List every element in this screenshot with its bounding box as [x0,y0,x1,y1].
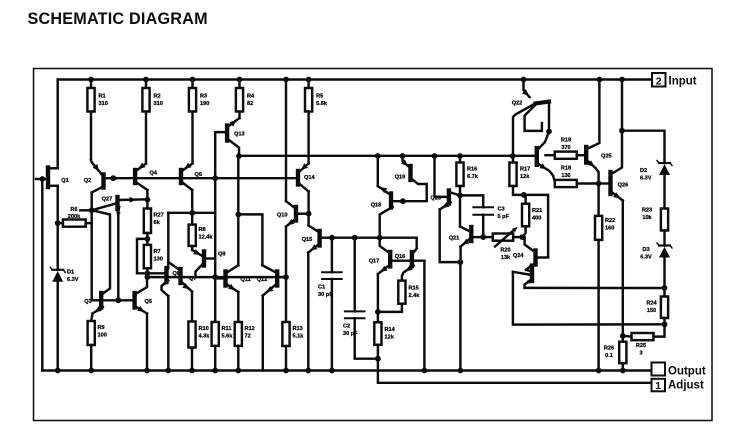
svg-text:R12: R12 [245,326,255,332]
node x215 y277 [212,274,218,280]
resistor R15 2.4k [398,281,420,304]
svg-text:12.4k: 12.4k [199,234,214,240]
wire comp node down [459,195,461,226]
wire R17 to R21 link [513,186,548,257]
wire x286 upper [285,80,287,202]
node y156 Q18 [375,153,381,159]
transistor Q23 [537,132,555,182]
wire Q14 collector down [307,192,309,226]
wire R7 to y277 node [146,268,148,277]
svg-text:82: 82 [247,101,253,107]
svg-text:R20: R20 [500,248,510,254]
svg-text:Q26: Q26 [618,183,629,189]
wire Q29 base leg [513,272,665,325]
wire R14 to adjust [377,345,379,359]
wire Q3 emitter to R9 [91,314,92,322]
svg-text:6.3V: 6.3V [640,175,652,181]
svg-text:200k: 200k [68,214,81,220]
wire R23 to D3 [663,231,665,246]
svg-text:30 pF: 30 pF [318,292,333,298]
wire left rail drop to Q1 [56,80,58,169]
resistor R3 190 [189,80,209,112]
svg-text:R26: R26 [604,346,614,352]
transistor Q3 [84,211,110,314]
transistor Q18 [371,156,393,238]
wire D1 to rail [56,281,58,370]
svg-text:R10: R10 [199,326,209,332]
transistor Q10 inline [277,201,309,226]
wire Q8 emitter to rail [167,296,169,371]
svg-text:4.3k: 4.3k [199,333,211,339]
wire adjust line [378,359,652,383]
transistor Q7 [168,262,196,292]
node central comp node [457,193,463,199]
transistor Q6 [181,163,202,190]
svg-text:Q5: Q5 [145,299,152,305]
svg-text:D2: D2 [640,168,647,174]
wire Q16 right leg [423,261,425,371]
node R12 rail [235,368,241,374]
resistor R16 6.7k [456,156,478,186]
svg-text:C2: C2 [343,324,350,330]
wire x286 lower [285,227,287,278]
wire R10 to rail [191,348,193,371]
svg-text:Q22: Q22 [512,101,523,107]
resistor R2 310 [142,80,162,112]
svg-text:Q16: Q16 [395,254,406,260]
wire R15 bottom [378,304,402,312]
node Q26 base node [596,181,602,187]
node Q11 Q12 collector join [235,212,241,218]
wire Q12 emitter to rail [262,296,264,371]
svg-text:190: 190 [200,101,209,107]
svg-text:Adjust: Adjust [668,380,704,392]
node Q10 base tap [306,211,312,217]
node base line Q13 tap [212,175,218,181]
wire y277 bus [147,276,286,278]
wire R2 to Q4 [145,112,147,164]
resistor R19 370 [546,138,585,159]
transistor Q12 [257,265,286,295]
transistor Q25 [586,147,611,184]
svg-text:R4: R4 [247,94,255,100]
svg-text:5.6k: 5.6k [316,101,328,107]
node R22 rail [596,368,602,374]
svg-text:12k: 12k [385,334,395,340]
resistor R8 12.4k [189,213,214,246]
wire Q28 base drop [435,156,448,197]
svg-text:R5: R5 [316,94,323,100]
node y156 Q28tap [432,153,438,159]
wire comparator line [239,155,535,157]
wire Q7 emitter to R10 [191,292,193,322]
capacitor C2 30pF [343,238,378,359]
resistor R7 130 [144,239,163,268]
wire Q1 collector down [56,186,58,223]
svg-text:R6: R6 [70,207,77,213]
resistor R17 12k [509,156,530,186]
wire down to D1 [56,223,58,270]
svg-text:R3: R3 [200,94,207,100]
node R15 R14 junction [375,309,381,315]
resistor R18 130 [555,166,598,188]
svg-text:R7: R7 [154,249,161,255]
node Q8 rail [165,368,171,374]
transistor Q15 [302,226,320,253]
node R11 rail [212,368,218,374]
svg-text:Q10: Q10 [277,213,288,219]
svg-text:R21: R21 [532,208,542,214]
resistor R26 0.1 [604,336,627,363]
wire R12 to rail [237,346,239,371]
wire emitter column to rail [459,262,461,370]
node R27 top [145,197,151,203]
node R27 R7 junction [145,236,151,242]
svg-text:R1: R1 [99,94,106,100]
node D1 rail [55,368,61,374]
svg-text:Q15: Q15 [302,237,313,243]
transistor Q28 [430,191,460,210]
node C1 rail [329,368,335,374]
node Q15 rail [305,368,311,374]
terminal Output [652,363,706,378]
svg-text:0.1: 0.1 [605,353,613,359]
terminal pin 2 Input [652,73,697,88]
transistor Q27 [92,197,148,212]
node Q22 collector Q23 [546,129,552,135]
transistor Q17 [369,238,390,274]
svg-text:Q25: Q25 [601,154,612,160]
resistor R1 310 [87,80,107,112]
svg-text:Q4: Q4 [150,171,158,177]
wire Q27 emitter down [116,211,121,300]
node R7 Q8 base [145,270,151,276]
node comp line left [236,153,242,159]
transistor Q1 [36,168,69,188]
node Q18 base loop [400,198,406,204]
resistor R4 82 [236,80,255,112]
node Q1 base to bottom rail [39,176,45,182]
svg-text:Q21: Q21 [449,236,460,242]
transistor Q5 [135,277,152,313]
transistor Q19 [393,156,427,201]
node R20 right [519,234,525,240]
svg-text:R14: R14 [385,327,396,333]
wire Q3 Q5 base line [100,299,134,301]
node R26 rail [620,368,626,374]
svg-text:30 pF: 30 pF [343,331,358,337]
wire Q2 collector down [90,193,92,301]
wire Q15 emitter to rail [307,253,309,371]
wire Q6 collector down [191,190,193,213]
svg-text:Q9: Q9 [218,252,225,258]
wire Q5 emitter to rail [146,314,148,371]
svg-text:2.4k: 2.4k [409,293,421,299]
resistor R13 5.1k [282,277,304,346]
node Q18 tap [377,235,383,241]
svg-text:R19: R19 [561,138,571,144]
svg-text:5.1k: 5.1k [293,333,305,339]
svg-text:R24: R24 [646,301,657,307]
resistor R5 5.6k [305,80,328,112]
svg-text:R18: R18 [561,166,571,172]
svg-text:R13: R13 [293,326,303,332]
svg-text:6.3V: 6.3V [640,254,652,260]
terminal pin 1 Adjust [652,379,704,392]
node Q21 rail [458,368,464,374]
wire R24 bottom [663,318,665,324]
node Q27 base tap [89,207,95,213]
svg-text:5 pF: 5 pF [498,214,510,220]
wire D2 to R23 [663,175,665,209]
wire R9 to rail [90,345,92,371]
node y156 Q19 [400,153,406,159]
node rail R2 [143,77,149,83]
svg-text:R23: R23 [642,208,652,214]
wire R1 to Q2 [90,112,92,161]
node C2 adjust join [375,356,381,362]
svg-text:Q18: Q18 [371,203,382,209]
svg-text:R9: R9 [98,325,105,331]
wire x215 mid [214,178,216,277]
node x286 y277 [283,274,289,280]
wire Q12 collector jog [238,214,262,265]
svg-text:Q24: Q24 [513,253,524,259]
node rail Q25 [597,77,603,83]
wire Q11 emitter to R12 [237,292,239,322]
svg-text:130: 130 [561,173,570,179]
svg-text:6k: 6k [154,220,161,226]
svg-text:SCHEMATIC DIAGRAM: SCHEMATIC DIAGRAM [28,10,208,28]
svg-text:400: 400 [532,215,541,221]
schematic border frame [34,69,713,421]
diode D3 6.3V zener [640,243,672,260]
node right column y288 [662,285,668,291]
svg-text:Q19: Q19 [395,175,406,181]
diode D1 6.3V zener [50,267,79,283]
wire PNP base line [105,177,296,179]
svg-text:2: 2 [656,75,662,87]
svg-text:R22: R22 [605,218,615,224]
wire x215 to R11 [214,277,216,322]
svg-text:Q3: Q3 [84,299,91,305]
svg-text:Q17: Q17 [369,259,380,265]
svg-text:72: 72 [245,333,251,339]
transistor Q16 [392,238,425,281]
wire R3 to Q6 [191,112,193,164]
resistor R25 3 [623,324,665,356]
node right column y324 [662,321,668,327]
svg-text:10k: 10k [642,215,652,221]
wire Q28 emitter down [440,210,460,263]
transistor Q4 [135,163,158,190]
node rail R3 [190,77,196,83]
svg-text:D3: D3 [642,247,649,253]
wire R11 to rail [214,346,216,371]
node R8 top [189,210,195,216]
wire Q25 collector [588,80,600,149]
svg-text:R16: R16 [467,167,477,173]
svg-text:Output: Output [668,366,706,378]
svg-text:150: 150 [647,308,656,314]
svg-text:R8: R8 [199,227,206,233]
node rail Q22 [521,77,527,83]
svg-text:C3: C3 [498,207,505,213]
wire R26 to rail [622,363,624,370]
svg-text:370: 370 [561,145,570,151]
wire R27 to junction [146,233,148,239]
svg-text:1: 1 [655,380,661,392]
svg-text:Q6: Q6 [195,172,202,178]
svg-text:Q28: Q28 [430,195,441,201]
svg-text:C1: C1 [318,285,325,291]
svg-text:Q1: Q1 [61,178,68,184]
node R25 R26 junction [620,333,626,339]
svg-text:D1: D1 [67,270,74,276]
wire Q26 emitter column [622,201,624,336]
svg-text:R15: R15 [409,286,419,292]
svg-text:6.7k: 6.7k [467,174,479,180]
wire Q8 base jog [137,239,165,273]
node Q3Q5 base tap [115,297,121,303]
wire Q13 base column [215,132,226,178]
node R9 rail [88,368,94,374]
svg-text:Q7: Q7 [189,276,196,282]
resistor R22 160 [595,184,615,240]
svg-text:5.6k: 5.6k [222,333,234,339]
resistor R20 13k trimmer [483,227,522,261]
node y156 R17 [510,153,516,159]
wire Q21 emitter down [459,247,461,263]
node rail x286 [283,77,289,83]
svg-text:130: 130 [154,256,163,262]
wire R5 to Q14 [307,112,309,164]
wire branch to D2 [622,131,665,163]
capacitor C1 30pF [318,238,342,371]
svg-text:12k: 12k [520,174,530,180]
node Q21 emitter join [458,259,464,265]
svg-text:Input: Input [669,76,697,88]
wire output bottom rail [42,369,651,371]
resistor R12 72 [235,322,255,346]
transistor Q14 [298,163,315,191]
wire zigzag to Q7Q8 [167,213,169,262]
svg-text:3: 3 [639,350,642,356]
node R10 rail [189,368,195,374]
transistor Q26 [599,131,629,201]
transistor Q22 [512,80,549,156]
svg-text:R2: R2 [154,94,161,100]
node R21 top [521,192,527,198]
resistor R14 12k [374,312,395,345]
node rail R5 [306,77,312,83]
wire Q29 emitter bus [525,287,665,290]
resistor R24 150 [646,288,668,318]
wire D3 down [663,257,665,288]
node R13 rail [283,368,289,374]
node R6 left [55,220,61,226]
node base line Q27 tap [110,175,116,181]
wire Q11 collector up [237,156,239,265]
svg-text:6.3V: 6.3V [67,277,79,283]
transistor Q11 [215,265,251,292]
node rail R4 [237,77,243,83]
resistor R10 4.3k [188,322,210,348]
resistor R6 200k [58,207,92,227]
svg-text:310: 310 [99,101,108,107]
svg-text:Q14: Q14 [304,175,315,181]
transistor Q24 [513,237,548,270]
diode D2 6.3V zener [640,161,672,182]
wire top supply rail [58,78,652,80]
wire R16 bottom [459,186,461,195]
svg-text:Q27: Q27 [102,197,113,203]
svg-text:Q2: Q2 [84,178,91,184]
wire R13 to rail [285,346,287,371]
transistor Q29 [513,268,532,288]
node C2 tap [352,235,358,241]
wire Q26 collector to rail [621,80,623,131]
svg-text:R17: R17 [520,167,530,173]
node y277 left [145,274,151,280]
resistor R23 10k [642,208,668,231]
node y156 R16 [457,153,463,159]
node Q5 rail [144,368,150,374]
wire Q1 base down far left [41,179,43,371]
capacitor C3 5pF [460,195,510,237]
node rail R1 [88,77,94,83]
transistor Q8 [162,262,180,296]
transistor Q21 [449,227,483,247]
node Q16 rail [422,368,428,374]
node rail Q26 [619,77,625,83]
wire Q17 emitter down [377,274,379,312]
svg-text:310: 310 [154,101,163,107]
resistor R11 5.6k [212,322,234,346]
resistor R21 400 [522,195,542,237]
wire Q27 base stub [80,209,91,211]
wire Q6 collector bus [168,212,215,214]
svg-text:R11: R11 [222,326,232,332]
node C3 base tap [480,234,486,240]
resistor R9 100 [88,321,107,345]
node D2 branch [619,128,625,134]
svg-text:100: 100 [98,332,107,338]
svg-text:13k: 13k [501,255,511,261]
title text [28,10,208,28]
node C1 tap [329,235,335,241]
svg-text:R27: R27 [154,213,164,219]
svg-text:R25: R25 [636,343,646,349]
transistor Q13 [227,112,244,157]
wire R22 to rail [597,240,599,371]
resistor R27 6k [144,200,164,233]
wire Q4 collector down [146,190,148,200]
svg-text:160: 160 [605,225,614,231]
transistor Q2 [84,160,104,193]
transistor Q9 [192,246,225,277]
svg-text:Q13: Q13 [234,132,245,138]
wire comp bus y237 [321,236,416,238]
